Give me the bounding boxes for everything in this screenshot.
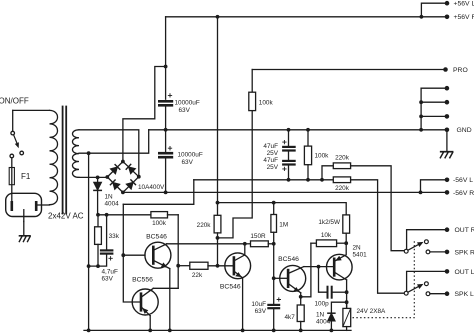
terminal aux 2 xyxy=(445,100,450,105)
resistor 4k7 xyxy=(300,297,302,305)
relay coil Re1 xyxy=(346,302,348,308)
svg-text:100k: 100k xyxy=(315,153,330,160)
svg-text:100k: 100k xyxy=(152,220,167,227)
diode bridge bottom-right xyxy=(127,180,136,189)
svg-text:4k7: 4k7 xyxy=(284,314,295,321)
svg-text:10k: 10k xyxy=(321,232,332,239)
terminal SPK L xyxy=(445,291,450,296)
resistor 22k xyxy=(178,265,190,267)
svg-text:2x42V AC: 2x42V AC xyxy=(48,211,84,220)
node relay/diode top xyxy=(345,300,349,304)
wire PRO resistor down to link xyxy=(219,111,252,238)
node -56V branch xyxy=(419,191,423,195)
node bridge top corner xyxy=(121,160,125,164)
node 4.7uF top xyxy=(105,213,109,217)
wire OUT R line xyxy=(407,230,447,250)
node 22k left junction xyxy=(176,264,180,268)
svg-text:1M: 1M xyxy=(279,222,288,229)
svg-text:4004: 4004 xyxy=(105,201,120,208)
terminal OUT L xyxy=(445,269,450,274)
relay contact L lower contact to SPK L xyxy=(426,292,430,296)
wire Q4 emitter bootstrap to 10k xyxy=(301,243,311,297)
wire +56V R stub xyxy=(421,16,447,18)
svg-text:10000uF: 10000uF xyxy=(178,152,203,159)
svg-text:63V: 63V xyxy=(102,276,114,283)
wire +56V sense chain vertical xyxy=(217,17,219,216)
wire detect node down to Q1 base / Q2 base xyxy=(123,204,141,302)
resistor 220k chain xyxy=(214,215,221,233)
resistor 220k upper (OUT R sense) xyxy=(322,166,333,180)
node 100p right xyxy=(345,290,349,294)
node 33k bottom xyxy=(96,264,100,268)
node bus Q1 emitter xyxy=(168,329,172,333)
terminal GND xyxy=(445,128,450,133)
svg-text:25V: 25V xyxy=(267,150,279,157)
wire switch to primary top xyxy=(13,109,50,111)
node 47uF bottom on sense rail xyxy=(287,178,291,182)
capacitor 10uF 63V xyxy=(273,278,275,304)
svg-text:150R: 150R xyxy=(250,233,266,240)
wire mid vertical (22k / Q2 collector riser) xyxy=(177,215,179,288)
relay contact R lever xyxy=(408,244,419,250)
node GND drop junction xyxy=(87,264,91,268)
wire Q3 emitter to bus xyxy=(242,278,244,331)
wire Q1 base xyxy=(123,254,145,256)
node C2 bottom on -56V rail xyxy=(164,191,168,195)
terminal -56V R xyxy=(445,190,450,195)
svg-text:1k2/5W: 1k2/5W xyxy=(318,219,341,226)
svg-text:BC546: BC546 xyxy=(278,256,299,263)
node bus 10uF xyxy=(272,329,276,333)
node diode tap on secondary bottom xyxy=(96,176,100,180)
wire staircase detect node xyxy=(123,180,194,205)
relay contact L upper contact xyxy=(425,282,429,286)
terminal PRO xyxy=(443,67,448,72)
wire center tap GND drop xyxy=(88,153,90,330)
svg-text:63V: 63V xyxy=(179,107,191,114)
resistor 100k vertical (sense) xyxy=(307,130,309,146)
mains plug connector xyxy=(6,193,42,216)
wire secondary top to bridge right corner xyxy=(79,130,139,177)
node C1 lead / bridge + wire xyxy=(164,65,168,69)
wire bridge plus output to +56 node (L shape) xyxy=(123,67,166,162)
bridge rectifier B1 10A400V diamond xyxy=(107,162,139,193)
capacitor 100p xyxy=(319,267,328,293)
svg-text:10uF: 10uF xyxy=(251,301,266,308)
wire 1M/150R node to Q4 base xyxy=(273,244,275,278)
svg-text:BC556: BC556 xyxy=(132,277,153,284)
node junction top rail to PRO chain xyxy=(216,15,220,19)
svg-text:4,7uF: 4,7uF xyxy=(102,269,118,276)
svg-text:OUT R: OUT R xyxy=(455,227,474,234)
node chain top junction (to relay feed wire) xyxy=(216,201,220,205)
capacitor 47uF 25V lower xyxy=(283,160,294,162)
svg-text:-56V R: -56V R xyxy=(453,190,474,197)
relay contact R pivot xyxy=(404,249,408,253)
node +56V branch junction xyxy=(420,15,424,19)
svg-text:+56V R: +56V R xyxy=(454,14,474,21)
resistor 10k xyxy=(311,242,317,244)
svg-text:SPK L: SPK L xyxy=(455,291,474,298)
wire GND mid rail xyxy=(149,129,447,131)
svg-text:63V: 63V xyxy=(182,159,194,166)
node bus Q2 emitter xyxy=(148,329,152,333)
node Q3 collector / 150R xyxy=(243,242,247,246)
resistor 220k lower (OUT L sense) xyxy=(333,177,350,183)
transistor Q4 BC546 xyxy=(280,265,306,291)
transistor Q5 2N5401 xyxy=(327,254,353,280)
terminal block GND group stubs xyxy=(421,87,447,89)
relay contact L pivot xyxy=(404,291,408,295)
node 220k upper branch on sense rail xyxy=(320,178,324,182)
diode bridge bottom-left xyxy=(110,180,119,189)
svg-text:4004: 4004 xyxy=(316,318,331,325)
wire -56V L branch xyxy=(421,180,448,193)
ground chassis at GND terminal xyxy=(446,130,448,152)
wire rectified node line A xyxy=(98,214,151,216)
resistor 1k2/5W xyxy=(343,215,350,233)
resistor 1M xyxy=(273,203,275,215)
transformer core xyxy=(62,107,64,214)
wire Q2 collector riser xyxy=(153,287,178,289)
svg-text:10000uF: 10000uF xyxy=(175,100,200,107)
node bridge left corner xyxy=(105,175,109,179)
wire bottom GND bus xyxy=(84,329,351,331)
svg-text:+56V L: +56V L xyxy=(454,1,474,8)
node 100p branch xyxy=(317,265,321,269)
svg-text:25V: 25V xyxy=(267,164,279,171)
node Q4 base / 10uF xyxy=(272,276,276,280)
wire Q5 collector down xyxy=(346,280,348,309)
node 33k top xyxy=(96,213,100,217)
node bridge right corner xyxy=(137,175,141,179)
node 150R right / 1M bottom xyxy=(272,242,276,246)
wire OUT L line xyxy=(407,271,447,291)
wire -56V rail xyxy=(123,191,447,193)
svg-text:F1: F1 xyxy=(21,172,31,181)
svg-text:220k: 220k xyxy=(335,155,350,162)
svg-text:100k: 100k xyxy=(259,99,274,106)
node bus 4k7 xyxy=(299,329,303,333)
node 1M top tap xyxy=(272,201,276,205)
svg-text:GND: GND xyxy=(457,127,472,134)
svg-text:10A400V: 10A400V xyxy=(138,184,165,191)
node 100k bottom on sense rail xyxy=(306,178,310,182)
wire PRO line xyxy=(252,69,445,71)
capacitor 4.7uF 63V xyxy=(106,215,108,250)
wire C1 top lead from +56 rail xyxy=(165,17,167,99)
fuse F1 xyxy=(9,168,14,185)
node bridge bottom corner xyxy=(121,191,125,195)
wire secondary bottom to bridge left corner xyxy=(79,176,107,178)
svg-text:220k: 220k xyxy=(197,222,212,229)
resistor 33k xyxy=(97,215,99,227)
terminal aux 1 xyxy=(445,86,450,91)
wire Q4 emitter node xyxy=(300,293,302,297)
svg-text:5401: 5401 xyxy=(353,251,368,258)
diode D2 1N4004 flyback xyxy=(331,302,346,313)
relay contact R lower contact to SPK R xyxy=(426,250,430,254)
wire relay feed from chain top to 1k2 xyxy=(218,203,347,215)
node center tap xyxy=(87,151,91,155)
transformer TR1 primary winding xyxy=(50,110,58,204)
ground chassis at mains plug xyxy=(23,222,25,236)
transformer TR1 secondary winding xyxy=(72,130,79,178)
svg-text:47uF: 47uF xyxy=(263,143,278,150)
resistor 150R xyxy=(245,243,251,245)
terminal SPK R xyxy=(445,250,450,255)
wire Q1 collector to 150R node xyxy=(167,243,245,245)
terminal -56V L xyxy=(445,178,450,183)
node 100k top on GND rail xyxy=(306,128,310,132)
terminal OUT R xyxy=(445,227,450,232)
relay contact R upper contact xyxy=(425,240,429,244)
svg-text:1N: 1N xyxy=(105,194,114,201)
svg-text:33k: 33k xyxy=(109,233,120,240)
transistor Q3 BC546 xyxy=(225,253,251,279)
terminal +56V R xyxy=(445,14,450,19)
svg-text:24V 2X8A: 24V 2X8A xyxy=(357,308,387,315)
svg-text:63V: 63V xyxy=(255,308,267,315)
svg-text:22k: 22k xyxy=(192,272,203,279)
wire +56V L branch xyxy=(421,3,447,17)
node Q1 base junction xyxy=(121,253,125,257)
wire +56V top rail xyxy=(166,16,422,18)
svg-text:SPK R: SPK R xyxy=(455,249,474,256)
svg-text:47uF: 47uF xyxy=(263,157,278,164)
diode bridge top-left xyxy=(111,165,120,174)
node C1/C2 on GND rail xyxy=(164,128,168,132)
node bus center-tap xyxy=(87,329,91,333)
terminal aux 3 xyxy=(445,114,450,119)
transistor Q2 BC556 xyxy=(132,289,158,315)
node Q5 emitter / 10k / 1k2 xyxy=(344,241,348,245)
relay contact L lever xyxy=(408,286,419,292)
svg-text:PRO: PRO xyxy=(453,67,468,74)
svg-text:BC546: BC546 xyxy=(220,284,241,291)
svg-text:-56V L: -56V L xyxy=(453,177,473,184)
node chain bottom junction (Q3 base) xyxy=(216,264,220,268)
wire Q2 emitter to bus xyxy=(149,316,151,331)
node bus Q3 emitter xyxy=(241,329,245,333)
wire secondary center tap to GND rail xyxy=(79,130,149,153)
resistor 100k horizontal (detector) xyxy=(151,212,168,218)
relay actuator dashed link xyxy=(353,241,415,318)
svg-text:100p: 100p xyxy=(315,300,330,307)
node 47uF top on GND rail xyxy=(287,128,291,132)
diode bridge top-right xyxy=(126,164,135,173)
node GND bus stubs xyxy=(419,100,423,104)
terminal +56V L xyxy=(445,1,450,6)
svg-text:OUT L: OUT L xyxy=(455,269,474,276)
switch S1 mains on/off xyxy=(12,110,14,131)
svg-text:BC546: BC546 xyxy=(146,234,167,241)
capacitor 47uF 25V upper xyxy=(288,130,290,147)
wire Q4 collector to Q5 base xyxy=(304,266,334,268)
diode D1 1N4004 half-wave xyxy=(97,177,99,214)
svg-text:220k: 220k xyxy=(335,185,350,192)
resistor R-PRO 100k vertical xyxy=(251,70,253,93)
svg-text:ON/OFF: ON/OFF xyxy=(0,97,29,106)
wire DC sense rail xyxy=(194,179,333,181)
capacitor C2 10000uF 63V xyxy=(159,130,172,193)
svg-text:1N: 1N xyxy=(316,311,325,318)
transistor Q1 BC546 xyxy=(145,242,171,268)
capacitor C1 10000uF 63V xyxy=(159,94,172,130)
node bus diode D2 xyxy=(330,329,334,333)
node chain mid junction xyxy=(216,236,220,240)
wire Q1 emitter to bus xyxy=(169,269,171,331)
